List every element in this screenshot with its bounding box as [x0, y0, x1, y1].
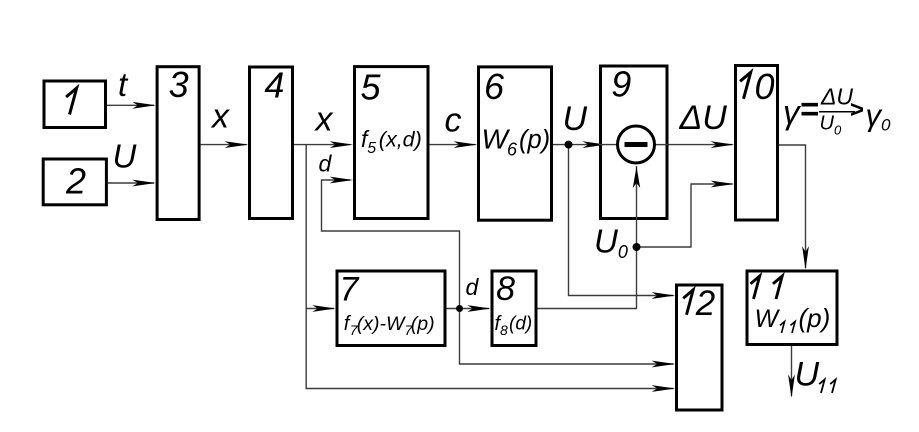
wire dU: block9 to block10 — [668, 144, 733, 146]
wire x: block4 to block5 — [294, 144, 350, 146]
svg-text:x: x — [314, 101, 334, 139]
svg-text:=: = — [800, 91, 819, 128]
arrowhead into block12 top — [652, 292, 676, 299]
svg-text:0: 0 — [754, 66, 774, 107]
wire d into block5 — [322, 180, 460, 309]
svg-text:3: 3 — [169, 64, 189, 105]
arrowhead U into block9 (tip crosses border) — [583, 141, 607, 148]
svg-text:d: d — [319, 151, 333, 177]
block 4 — [250, 67, 293, 219]
block 9 internal line from circle to right edge — [655, 144, 669, 146]
wire d branch down to block12 — [460, 309, 674, 365]
wire t: block1 to block3 — [107, 104, 154, 106]
svg-text:2: 2 — [695, 284, 715, 323]
arrowhead c into block6 — [454, 141, 478, 148]
svg-text:U: U — [795, 356, 820, 394]
svg-text:8: 8 — [496, 270, 515, 308]
svg-text:ΔU: ΔU — [679, 99, 728, 137]
block 8 — [492, 271, 536, 346]
arrowhead into block8 — [467, 305, 491, 312]
block 10 — [736, 66, 778, 221]
block 5 — [355, 67, 429, 219]
block 12 — [677, 285, 723, 410]
wire U0: block8 output to node U0 — [538, 247, 637, 309]
arrowhead into block12 middle — [652, 361, 676, 368]
svg-text:U: U — [113, 138, 137, 175]
formula gamma = dU/U0 > gamma0 — [783, 84, 891, 138]
arrowhead U11 down — [788, 375, 795, 399]
wire U0 up into comparator — [636, 166, 638, 247]
junction dot U after block6 — [565, 141, 573, 149]
arrowhead up into comparator circle — [633, 167, 640, 189]
block 10 number — [740, 72, 751, 99]
block 11 — [747, 271, 837, 345]
wire block10 output to block11 — [779, 145, 806, 268]
wire block11 output U11 — [791, 346, 793, 396]
svg-text:x: x — [210, 98, 230, 136]
block 6 — [479, 67, 552, 220]
svg-text:(p): (p) — [799, 303, 831, 333]
wire x: block3 to block4 — [201, 144, 247, 146]
svg-text:5: 5 — [360, 67, 381, 108]
svg-text:c: c — [445, 101, 462, 139]
wire U0 branch to block10 second input — [637, 184, 733, 247]
block 9 — [601, 66, 668, 219]
arrowhead into block7 — [312, 305, 336, 312]
arrowhead x into block4 — [225, 141, 249, 148]
minus sign in comparator — [625, 142, 648, 147]
svg-text:W: W — [755, 305, 781, 333]
subscript 11 of W11 — [780, 322, 785, 334]
svg-text:4: 4 — [264, 65, 284, 106]
wire U branch down to block12 — [569, 145, 674, 296]
junction dot U0 — [633, 243, 641, 251]
wire U: block2 to block3 — [108, 182, 154, 184]
wire block7 input — [306, 308, 334, 310]
wire c: block5 to block6 — [429, 144, 476, 146]
block 1 number — [66, 88, 77, 115]
fraction bar — [819, 111, 855, 113]
svg-text:2: 2 — [65, 161, 86, 202]
svg-text:>: > — [850, 97, 864, 124]
svg-text:ΔU: ΔU — [820, 84, 853, 110]
block 7 — [337, 271, 445, 346]
subscript 11 of U11 — [819, 380, 824, 394]
arrowhead into block12 bottom — [652, 385, 676, 392]
block 2 — [43, 159, 106, 205]
block 12 number — [683, 290, 693, 315]
svg-text:d: d — [466, 274, 480, 300]
svg-text:U: U — [563, 100, 588, 138]
arrowhead d into block5 — [330, 177, 354, 184]
wire block7 to block8 — [447, 308, 490, 310]
comparator circle in block 9 — [618, 126, 655, 163]
junction dot d between block7 and block8 — [456, 305, 463, 312]
arrowhead U0 into block10 — [711, 181, 735, 188]
svg-text:6: 6 — [484, 66, 505, 107]
block 1 — [44, 81, 106, 128]
arrowhead x into block5 — [330, 141, 354, 148]
arrowhead dU into block10 — [711, 141, 735, 148]
block 11 number — [751, 276, 760, 299]
svg-text:f7(x)-W7(p): f7(x)-W7(p) — [344, 313, 435, 338]
wire x branch down to block12 — [306, 145, 673, 389]
svg-text:9: 9 — [611, 64, 631, 105]
wire U: block6 to block9 — [553, 144, 598, 146]
svg-text:7: 7 — [340, 271, 360, 309]
block 3 — [157, 67, 199, 220]
block 9 internal input line — [599, 144, 618, 146]
arrowhead U into block3 — [132, 180, 156, 187]
arrowhead t into block3 — [132, 102, 156, 109]
arrowhead down into block11 — [802, 246, 809, 270]
